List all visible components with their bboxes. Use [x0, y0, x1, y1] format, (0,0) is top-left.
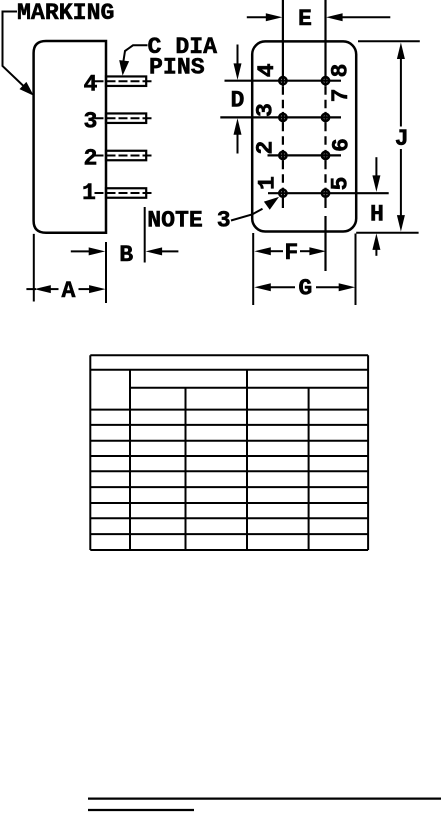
- svg-text:F: F: [284, 240, 298, 266]
- pin 1 (side view): [82, 180, 154, 206]
- footer rule short: [88, 809, 194, 811]
- pin hole 6: [322, 152, 329, 159]
- pin hole 7: [322, 114, 329, 121]
- svg-text:1: 1: [255, 176, 281, 190]
- dimension A: [26, 234, 105, 304]
- svg-text:8: 8: [328, 64, 354, 78]
- svg-text:A: A: [62, 278, 76, 304]
- pin hole cross stubs: [283, 75, 326, 199]
- dimension B: [71, 207, 179, 303]
- svg-text:2: 2: [84, 146, 98, 172]
- pin hole 1: [279, 190, 286, 197]
- pin 3 (side view): [84, 108, 154, 134]
- package body (bottom view): [252, 41, 356, 231]
- NOTE 3 label with leader: [147, 193, 282, 234]
- svg-text:E: E: [298, 6, 312, 32]
- dimension D: [231, 45, 245, 154]
- package body (side view): [34, 41, 106, 233]
- dimension J: [356, 41, 420, 233]
- dimension E: [247, 6, 390, 32]
- pin row line 4/8: [225, 80, 342, 82]
- svg-text:MARKING: MARKING: [17, 0, 114, 26]
- MARKING label with leader: [3, 0, 115, 99]
- pin hole 2: [279, 152, 286, 159]
- svg-text:4: 4: [84, 71, 98, 97]
- svg-text:G: G: [298, 276, 312, 302]
- pin row line 3/7: [220, 116, 341, 118]
- svg-text:J: J: [395, 126, 409, 152]
- svg-text:1: 1: [82, 180, 96, 206]
- pin row line 1/5: [268, 192, 389, 194]
- svg-text:4: 4: [254, 63, 280, 77]
- pin 2 (side view): [84, 146, 154, 172]
- svg-text:7: 7: [328, 88, 354, 102]
- svg-text:5: 5: [328, 177, 354, 191]
- pin hole 3: [279, 114, 286, 121]
- svg-text:D: D: [231, 88, 245, 114]
- pin hole 4: [279, 77, 286, 84]
- dimension H: [370, 157, 384, 256]
- pin 4 (side view): [84, 71, 154, 97]
- pin hole 8: [322, 77, 329, 84]
- svg-text:3: 3: [253, 103, 279, 117]
- dimension G: [254, 234, 355, 306]
- svg-text:3: 3: [84, 108, 98, 134]
- svg-text:6: 6: [328, 138, 354, 152]
- pin column centerline right: [324, 0, 326, 271]
- dimension F: [253, 233, 326, 305]
- svg-text:B: B: [119, 242, 133, 268]
- svg-text:PINS: PINS: [149, 54, 205, 80]
- svg-text:NOTE 3: NOTE 3: [147, 208, 231, 234]
- pin hole 5: [322, 190, 329, 197]
- pin row line 2/6: [268, 154, 342, 156]
- svg-text:2: 2: [252, 141, 278, 155]
- C DIA PINS label with leader: [118, 34, 218, 80]
- dimension table: [90, 355, 368, 550]
- footer rule long: [88, 797, 441, 799]
- pin column centerline left: [282, 0, 284, 208]
- svg-text:H: H: [370, 202, 384, 228]
